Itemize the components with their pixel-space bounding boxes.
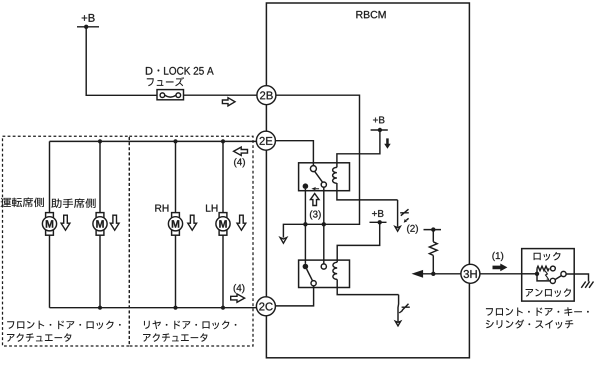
current direction solid arrow (right) toward key switch (493, 264, 508, 272)
label (2) (407, 225, 418, 234)
motor RH rear (door lock actuator) with branch wires (168, 141, 182, 307)
unlock direction outline arrow (driver motor) (61, 215, 70, 230)
switch actuation zigzag arrow (545, 271, 549, 281)
+B power supply (battery feed, top left) (77, 14, 99, 29)
open continuation arrow below transistor (unlock) (395, 321, 400, 326)
open continuation arrow below transistor (2) (395, 227, 400, 232)
caption front door key cylinder switch (486, 307, 589, 329)
motor passenger side (door lock actuator) with branch wires (93, 141, 107, 307)
junction on top bus x=100 (98, 139, 102, 143)
fuse D-LOCK 25A (157, 90, 184, 100)
junction on top bus x=223 (221, 139, 225, 143)
current direction solid arrow (down) beside +B (384, 138, 391, 148)
+B supply for lock relay coil (371, 116, 388, 132)
label driver side (1, 197, 44, 207)
lock relay box (upper) (299, 163, 350, 191)
label (1) (492, 252, 503, 261)
wire resistor to 3H line (432, 255, 434, 273)
current direction arrow (outline, right) near fuse (222, 98, 235, 106)
switch movable arm and pole (555, 271, 566, 279)
resistor (on 3H sense line) (429, 242, 437, 256)
label (4) upper (234, 158, 245, 167)
wire +B to lock relay coil top (337, 130, 380, 167)
wire from 2B right, down to internal bus, left end continuation (276, 95, 360, 237)
wire from lock relay thrown contact down to unlock relay contact (323, 187, 325, 264)
bottom bus wire (unlock side) from driver motor to connector 2C (50, 307, 258, 309)
label (4) lower (234, 284, 245, 293)
transistor driver (unlock): lead, X contact, arrow, continuation (395, 295, 410, 326)
front door key cylinder switch box (522, 249, 575, 302)
label LH (206, 205, 217, 212)
front door lock actuator dashed box (3, 136, 130, 346)
connector 3H (461, 264, 480, 283)
terminal stub bar right of (2) (424, 227, 442, 231)
junction on bottom bus x=223 (221, 306, 225, 310)
label (3) (310, 210, 321, 219)
wire lock relay coil bottom to transistor (2) (337, 183, 398, 200)
body ground hatch (581, 282, 593, 288)
motor driver side (door lock actuator) with branch wires (42, 141, 56, 307)
caption front door lock actuator (7, 320, 121, 341)
lock relay coil (333, 167, 337, 183)
wire switch to body ground (566, 274, 588, 282)
unlock direction outline arrow (passenger motor) (110, 215, 119, 230)
wire from lock relay fixed dot down to unlock relay pole (304, 189, 306, 264)
transistor driver (2): lead, X contact, arrow, continuation (395, 200, 409, 231)
unlock direction outline arrow (LH motor) (237, 215, 246, 230)
wire unlock relay coil bottom to transistor (unlock) (337, 279, 398, 294)
label passenger side (51, 198, 95, 208)
label RH (155, 205, 168, 212)
wire 3H to key cylinder switch (480, 273, 522, 275)
connector 2C (256, 297, 275, 316)
wire 3H leftward with solid left arrow end (423, 273, 461, 275)
connector 2E (256, 131, 275, 150)
signal (4) outline arrow pointing left into actuators (234, 147, 248, 155)
wire from +B down and right to fuse (86, 27, 157, 96)
connector 2B (257, 86, 276, 105)
unlock direction outline arrow (RH motor) (188, 215, 197, 230)
wire +B to unlock relay coil top (337, 222, 380, 262)
unlock side branch and contact (537, 274, 555, 284)
top bus wire (lock side) from driver motor to connector 2E (50, 140, 258, 142)
caption rear door lock actuator (143, 320, 236, 342)
switch common feed wire and junction (522, 272, 540, 276)
lock relay contact: pole circle, arm, thrown contact, fixed dot (303, 166, 327, 191)
label D LOCK 25 A fuse (146, 67, 214, 86)
junction dot on bus (left) (303, 222, 307, 226)
wire from fuse to connector 2B (184, 94, 258, 96)
relay arm throw direction tick (left) (311, 187, 319, 191)
wire from 2E to lock relay movable contact (275, 141, 313, 166)
+B supply for unlock relay coil (370, 210, 387, 224)
rear door lock actuator dashed box (129, 136, 253, 346)
label unlock (526, 288, 571, 297)
wire from unlock relay pole to connector 2C (275, 286, 313, 306)
junction on bottom bus x=175.5 (173, 306, 177, 310)
RBCM module box (266, 3, 469, 358)
lock side branch with resistor coil and contact (537, 266, 555, 274)
unlock relay contact: fixed dot, contact circle, arm, pole circle (303, 264, 327, 286)
label lock (534, 252, 561, 261)
signal (3) outline arrow pointing up (310, 194, 319, 206)
junction on bottom bus x=100 (98, 306, 102, 310)
unlock relay box (lower) (299, 260, 350, 287)
unlock relay coil (333, 262, 337, 279)
motor LH rear (door lock actuator) with branch wires (216, 141, 230, 307)
signal (4) outline arrow pointing right to connector 2C (231, 294, 245, 302)
open continuation arrow (down) at left end of internal bus (280, 238, 287, 244)
wire from stub down to resistor (432, 230, 434, 242)
junction dot on bus (right) (322, 222, 326, 226)
junction dot on 3H line (431, 272, 435, 276)
junction on top bus x=175.5 (173, 139, 177, 143)
